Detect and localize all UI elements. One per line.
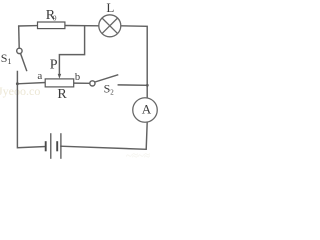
svg-text:P: P: [50, 58, 58, 73]
svg-text:S1: S1: [1, 51, 12, 66]
svg-text:b: b: [75, 72, 80, 83]
svg-text:L: L: [106, 0, 114, 15]
svg-text:S2: S2: [104, 82, 115, 97]
svg-text:a: a: [37, 70, 42, 82]
svg-text:~≈~≈: ~≈~≈: [126, 150, 150, 162]
svg-text:R: R: [57, 87, 67, 102]
svg-text:A: A: [142, 102, 152, 117]
svg-text:R0: R0: [46, 8, 57, 23]
svg-text:Jyeoo.co: Jyeoo.co: [0, 84, 40, 98]
